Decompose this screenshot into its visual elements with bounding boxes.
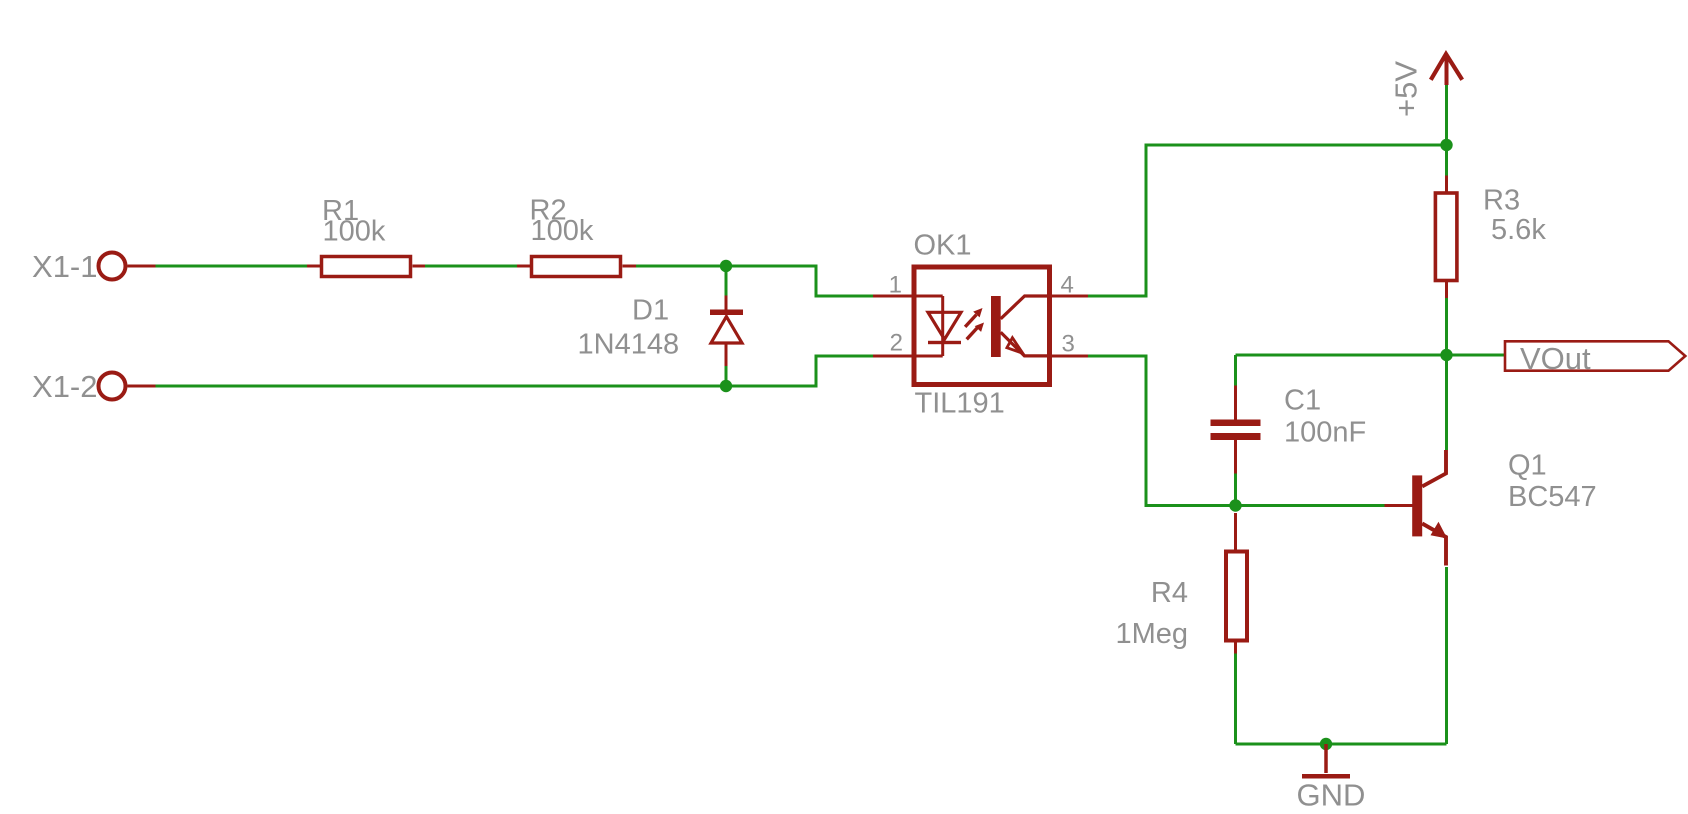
resistor R1 [307,257,425,277]
node junction +5V rail [1440,139,1452,151]
svg-text:BC547: BC547 [1508,481,1597,513]
wire OK1 pin4 to +5V rail [1088,145,1447,296]
svg-text:GND: GND [1297,778,1366,813]
pin number 2 [890,330,903,357]
value 100k R2 [531,215,594,247]
OK1 light arrow upper [965,308,982,327]
wire C1 bottom branch [1234,474,1237,506]
output flag VOut [1505,341,1685,370]
wire VOut node to flag [1236,354,1506,357]
label X1-1 [32,249,97,284]
value 1Meg [1115,618,1188,650]
label X1-2 [32,369,97,404]
svg-text:OK1: OK1 [914,230,972,262]
svg-text:Q1: Q1 [1508,450,1547,482]
value BC547 [1508,481,1597,513]
svg-text:X1-2: X1-2 [32,369,97,404]
svg-text:3: 3 [1062,331,1075,358]
pin number 4 [1061,272,1074,299]
pin number 1 [889,272,902,299]
label Q1 [1508,450,1547,482]
OK1 pin 2 lead [873,355,943,358]
terminal X1-1 [99,253,156,280]
wire +5V symbol stem [1445,85,1448,176]
capacitor C1 [1211,386,1261,474]
OK1 pin 3 lead [1052,355,1088,358]
optocoupler OK1 box [914,267,1050,385]
ground GND [1302,744,1350,779]
svg-text:5.6k: 5.6k [1491,214,1546,246]
terminal X1-2 [99,373,156,400]
power +5V symbol [1431,54,1462,85]
label VOut [1520,341,1591,376]
wire X1-2 to OK1 pin2 [156,356,874,386]
svg-text:D1: D1 [632,295,669,327]
value 5.6k [1491,214,1546,246]
node junction VOut [1440,349,1452,361]
wire R2 to OK1 pin1 [636,266,873,296]
label R4 [1151,577,1188,609]
node junction GND [1320,738,1332,750]
value 1N4148 [578,329,680,361]
wire ground rail [1236,743,1447,746]
OK1 light arrow lower [967,323,984,340]
wire R4 bottom [1234,654,1237,745]
wire D1 top branch [725,266,728,296]
label OK1 [914,230,972,262]
svg-text:1N4148: 1N4148 [578,329,680,361]
wire VOut node to Q1 collector [1445,355,1448,450]
svg-text:R4: R4 [1151,577,1188,609]
label R1 [322,195,359,227]
resistor R3 [1435,176,1457,299]
wire Q1 emitter down [1445,567,1448,744]
diode D1 [710,296,743,367]
transistor Q1 [1385,450,1448,566]
wire net X1-1 to R1 [156,265,308,268]
svg-text:4: 4 [1061,272,1074,299]
wire C1 top branch [1234,355,1237,386]
svg-text:+5V: +5V [1389,61,1424,117]
label C1 [1284,385,1321,417]
svg-text:1Meg: 1Meg [1115,618,1188,650]
svg-text:C1: C1 [1284,385,1321,417]
svg-text:X1-1: X1-1 [32,249,97,284]
node junction Q1 base / R4 / C1 [1229,499,1241,511]
label R3 [1483,185,1520,217]
svg-text:100k: 100k [323,216,386,248]
wire D1 bottom branch [725,366,728,386]
value TIL191 [915,388,1005,420]
label GND [1297,778,1366,813]
node junction D1 top [720,260,732,272]
OK1 pin 4 lead [1052,295,1088,298]
OK1 phototransistor [991,296,1052,357]
resistor R2 [517,257,636,277]
svg-text:2: 2 [890,330,903,357]
label +5V [1389,61,1424,117]
svg-text:R3: R3 [1483,185,1520,217]
svg-text:1: 1 [889,272,902,299]
OK1 pin 1 lead [873,295,943,298]
value 100k R1 [323,216,386,248]
value 100nF [1284,417,1366,449]
svg-text:TIL191: TIL191 [915,388,1005,420]
svg-text:VOut: VOut [1520,341,1591,376]
wire R1 to R2 [425,265,517,268]
svg-text:100k: 100k [531,215,594,247]
wire R3 bottom to VOut node [1445,298,1448,355]
pin number 3 [1062,331,1075,358]
svg-text:100nF: 100nF [1284,417,1366,449]
OK1 internal LED [928,296,961,356]
label D1 [632,295,669,327]
label R2 [530,195,567,227]
node junction D1 bottom [720,380,732,392]
wire OK1 pin3 to Q1 base [1088,356,1385,506]
resistor R4 [1226,513,1247,654]
